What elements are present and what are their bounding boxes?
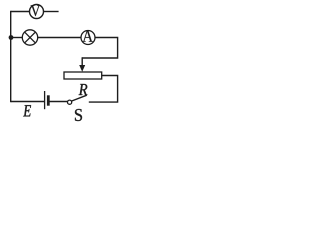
- label R: [79, 84, 88, 95]
- wire junction to lamp: [11, 37, 23, 39]
- switch S: [68, 95, 87, 104]
- rheostat slider arrow: [79, 57, 85, 72]
- wire voltmeter right stub: [43, 11, 58, 13]
- wire rheostat right to switch: [89, 76, 118, 103]
- voltmeter V: [30, 5, 44, 19]
- ammeter A: [81, 30, 95, 44]
- wire top-left: [11, 11, 30, 13]
- rheostat R body: [64, 72, 102, 79]
- wire bottom-left: [11, 101, 45, 103]
- wire battery to switch: [49, 101, 67, 103]
- lamp (circle with X): [22, 30, 37, 45]
- wire left rail: [10, 11, 12, 102]
- wire ammeter right and down to slider: [82, 38, 117, 59]
- wire lamp to ammeter: [38, 37, 81, 39]
- label E: [23, 105, 31, 116]
- battery E: [45, 91, 49, 109]
- label S: [75, 109, 82, 121]
- node junction dot: [9, 35, 14, 40]
